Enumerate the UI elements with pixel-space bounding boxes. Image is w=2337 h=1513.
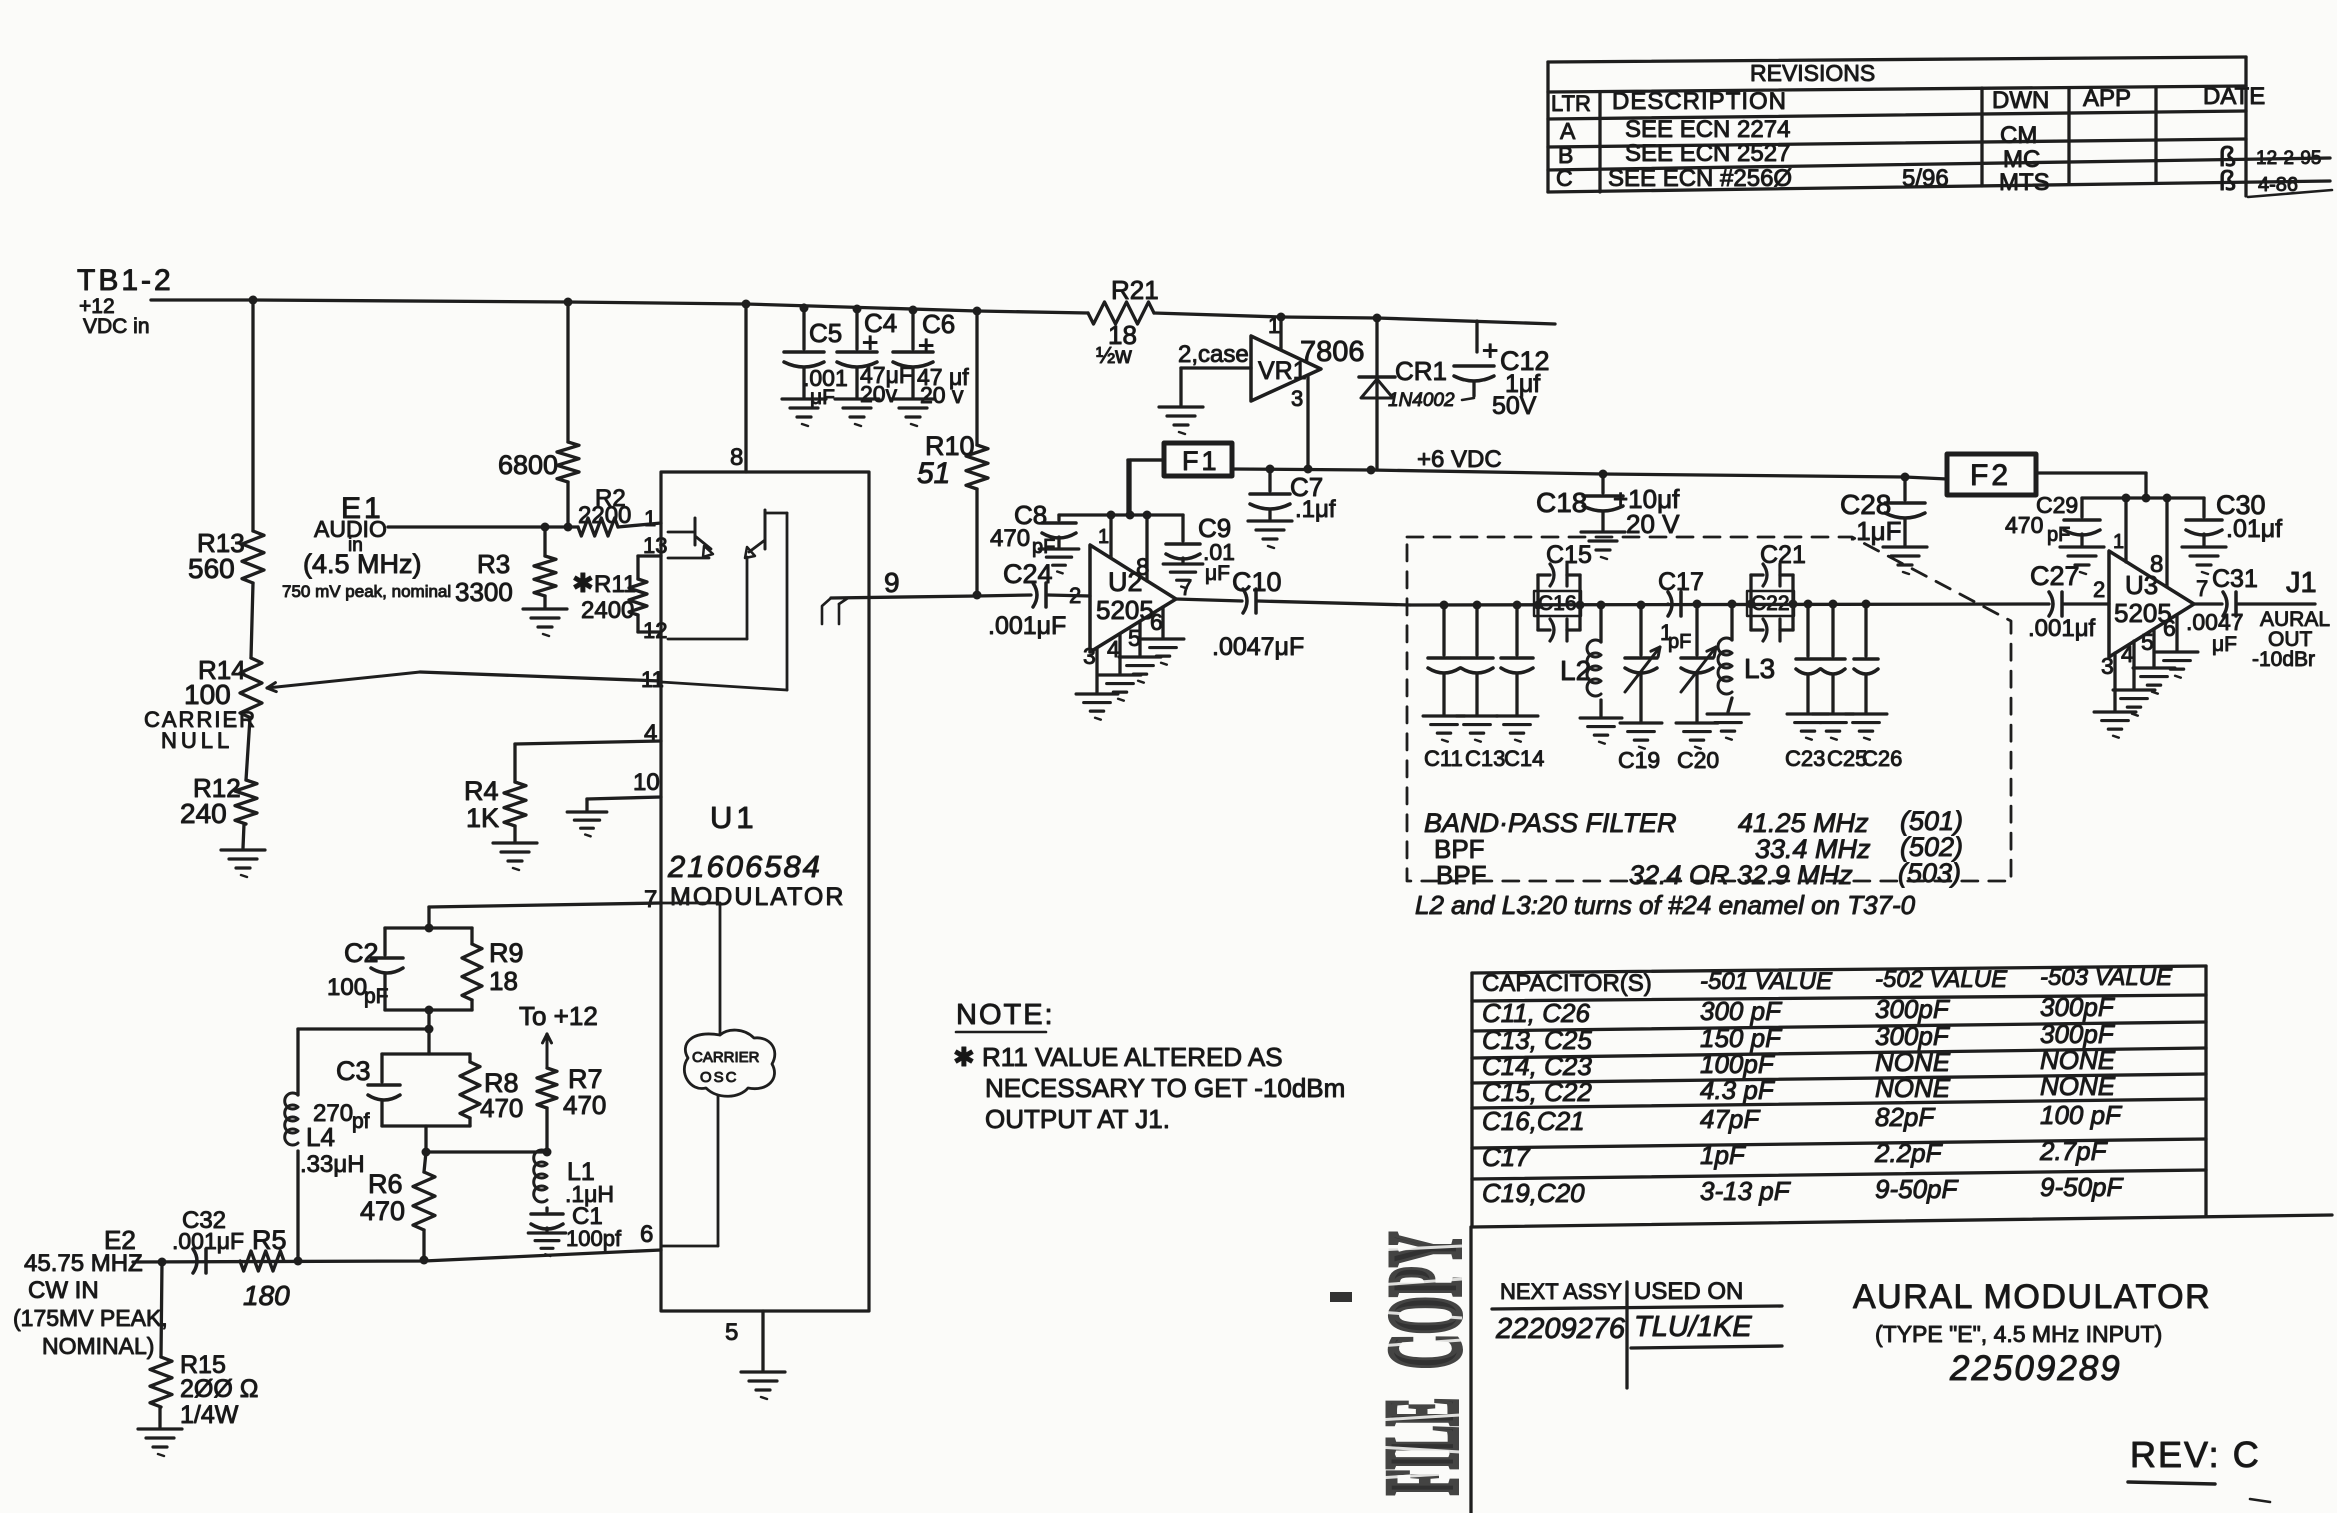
svg-text:560: 560 [188, 553, 235, 584]
svg-text:A: A [1560, 118, 1576, 144]
svg-text:F1: F1 [1182, 446, 1220, 476]
svg-text:12: 12 [643, 618, 667, 643]
svg-text:20 v: 20 v [920, 382, 964, 408]
svg-text:+: + [918, 330, 934, 361]
svg-text:COPY: COPY [1368, 1232, 1482, 1369]
svg-text:C26: C26 [1862, 746, 1902, 771]
svg-text:U1: U1 [710, 800, 758, 835]
svg-text:32.4 OR 32.9 MHz: 32.4 OR 32.9 MHz [1629, 860, 1853, 890]
svg-text:L4: L4 [306, 1122, 335, 1152]
svg-text:(175MV PEAK,: (175MV PEAK, [13, 1305, 168, 1331]
svg-text:NEXT ASSY: NEXT ASSY [1500, 1279, 1622, 1304]
svg-text:R9: R9 [489, 938, 524, 968]
svg-text:R4: R4 [464, 776, 499, 806]
svg-text:470: 470 [2005, 512, 2043, 538]
svg-text:½w: ½w [1096, 342, 1132, 368]
svg-text:C18: C18 [1536, 487, 1587, 518]
svg-text:(4.5 MHz): (4.5 MHz) [303, 549, 422, 579]
svg-text:4: 4 [2121, 641, 2134, 667]
svg-text:.1μf: .1μf [1295, 496, 1336, 523]
svg-text:1N4002: 1N4002 [1388, 390, 1455, 411]
svg-text:2: 2 [2093, 577, 2105, 602]
svg-text:1/4W: 1/4W [180, 1401, 239, 1429]
svg-text:180: 180 [243, 1280, 290, 1311]
svg-text:L2: L2 [1560, 655, 1591, 686]
svg-text:USED ON: USED ON [1634, 1278, 1743, 1305]
svg-text:9-50pF: 9-50pF [2040, 1172, 2124, 1202]
svg-text:LTR: LTR [1551, 91, 1591, 116]
svg-text:-502 VALUE: -502 VALUE [1875, 966, 2008, 993]
svg-text:-501 VALUE: -501 VALUE [1700, 968, 1833, 995]
svg-text:L2 and L3:20 turns of #24 enam: L2 and L3:20 turns of #24 enamel on T37-… [1415, 890, 1916, 920]
svg-text:470: 470 [990, 525, 1030, 552]
svg-text:C11, C26: C11, C26 [1482, 998, 1590, 1028]
svg-text:5: 5 [2141, 629, 2154, 655]
svg-text:18: 18 [489, 966, 518, 996]
svg-text:47pF: 47pF [1700, 1104, 1761, 1134]
svg-text:SEE ECN #256Ø: SEE ECN #256Ø [1608, 165, 1792, 192]
svg-text:NONE: NONE [2040, 1071, 2116, 1101]
svg-text:2,case: 2,case [1178, 341, 1249, 368]
svg-text:REVISIONS: REVISIONS [1750, 60, 1875, 86]
svg-text:μF: μF [1205, 562, 1230, 585]
svg-text:470: 470 [480, 1093, 523, 1123]
svg-text:100 pF: 100 pF [2040, 1100, 2123, 1130]
svg-text:C5: C5 [809, 318, 842, 348]
svg-text:CM: CM [2000, 122, 2037, 149]
svg-text:100pf: 100pf [566, 1226, 622, 1251]
svg-text:MODULATOR: MODULATOR [670, 883, 845, 911]
svg-text:✱ R11 VALUE ALTERED AS: ✱ R11 VALUE ALTERED AS [953, 1042, 1283, 1072]
svg-text:To +12: To +12 [519, 1001, 598, 1031]
svg-text:240: 240 [180, 798, 227, 829]
svg-text:22209276: 22209276 [1495, 1313, 1626, 1345]
svg-text:DWN: DWN [1992, 87, 2049, 114]
svg-text:pF: pF [1668, 631, 1691, 653]
svg-text:CW IN: CW IN [28, 1277, 99, 1304]
svg-text:3-13 pF: 3-13 pF [1700, 1176, 1792, 1206]
svg-text:1: 1 [1268, 313, 1280, 338]
svg-text:20v: 20v [860, 381, 898, 407]
svg-text:BPF: BPF [1436, 860, 1487, 890]
svg-text:300pF: 300pF [2040, 992, 2116, 1022]
svg-text:10: 10 [633, 769, 660, 796]
svg-text:CARRIER: CARRIER [692, 1049, 760, 1066]
svg-text:pF: pF [2047, 524, 2070, 546]
svg-text:OUTPUT AT J1.: OUTPUT AT J1. [985, 1104, 1170, 1134]
svg-text:J1: J1 [2286, 567, 2317, 599]
svg-text:✱: ✱ [572, 568, 594, 598]
svg-text:.001μF: .001μF [172, 1228, 244, 1254]
svg-text:470: 470 [360, 1196, 405, 1226]
svg-text:22509289: 22509289 [1949, 1349, 2122, 1388]
svg-text:pF: pF [1032, 536, 1055, 558]
svg-text:-10dBr: -10dBr [2252, 648, 2315, 671]
svg-text:C24: C24 [1003, 559, 1053, 589]
svg-text:100: 100 [184, 679, 231, 710]
svg-text:C16,C21: C16,C21 [1482, 1106, 1585, 1136]
svg-text:R5: R5 [252, 1225, 287, 1255]
svg-text:750 mV peak, nominal: 750 mV peak, nominal [282, 582, 451, 601]
svg-text:13: 13 [643, 533, 667, 558]
svg-text:45.75 MHZ: 45.75 MHZ [24, 1250, 143, 1277]
svg-text:5205: 5205 [1096, 595, 1154, 625]
svg-text:.0047: .0047 [2186, 609, 2244, 635]
svg-text:NECESSARY TO GET -10dBm: NECESSARY TO GET -10dBm [985, 1073, 1345, 1103]
svg-text:6: 6 [640, 1221, 653, 1248]
svg-text:3: 3 [1083, 643, 1096, 669]
svg-text:2.7pF: 2.7pF [2039, 1136, 2109, 1166]
svg-text:82pF: 82pF [1875, 1102, 1936, 1132]
svg-text:5/96: 5/96 [1902, 165, 1949, 192]
svg-text:1pF: 1pF [1700, 1140, 1747, 1170]
svg-text:6800: 6800 [498, 450, 558, 480]
svg-text:-503 VALUE: -503 VALUE [2040, 964, 2173, 991]
svg-text:MTS: MTS [1999, 169, 2050, 196]
svg-text:C2: C2 [344, 938, 379, 968]
svg-text:C20: C20 [1677, 747, 1719, 773]
svg-text:3: 3 [2101, 653, 2114, 679]
svg-text:1: 1 [644, 506, 656, 531]
svg-text:.0047μF: .0047μF [1212, 633, 1304, 661]
svg-text:7806: 7806 [1300, 336, 1365, 368]
svg-text:pf: pf [352, 1110, 370, 1133]
svg-text:5: 5 [725, 1319, 738, 1346]
svg-text:50V: 50V [1492, 392, 1537, 420]
svg-text:NULL: NULL [161, 728, 233, 753]
svg-text:C3: C3 [336, 1056, 371, 1086]
svg-text:SEE ECN 2527: SEE ECN 2527 [1625, 140, 1790, 167]
svg-text:2200: 2200 [578, 502, 631, 529]
svg-text:C19: C19 [1618, 747, 1660, 773]
svg-text:APP: APP [2083, 85, 2131, 112]
svg-text:C: C [1556, 165, 1573, 191]
svg-text:C16: C16 [1538, 592, 1577, 615]
svg-text:20 V: 20 V [1626, 509, 1680, 539]
svg-text:C14: C14 [1504, 746, 1544, 771]
svg-text:TB1-2: TB1-2 [77, 264, 174, 297]
svg-text:9-50pF: 9-50pF [1875, 1174, 1959, 1204]
svg-text:C21: C21 [1760, 541, 1806, 569]
svg-text:7: 7 [644, 886, 657, 913]
svg-text:OSC: OSC [700, 1069, 739, 1086]
svg-text:2.2pF: 2.2pF [1874, 1138, 1944, 1168]
svg-text:NONE: NONE [1875, 1073, 1951, 1103]
svg-text:VDC in: VDC in [83, 315, 150, 338]
svg-text:470: 470 [563, 1090, 606, 1120]
svg-text:9: 9 [884, 567, 900, 598]
svg-text:NOMINAL): NOMINAL) [42, 1333, 154, 1359]
svg-text:.33μH: .33μH [300, 1151, 365, 1178]
svg-text:1K: 1K [466, 803, 499, 833]
svg-text:(TYPE "E", 4.5 MHz INPUT: (TYPE "E", 4.5 MHz INPUT) [1875, 1321, 2162, 1347]
svg-text:C13: C13 [1465, 746, 1505, 771]
svg-text:.001μf: .001μf [2028, 615, 2096, 642]
svg-text:1: 1 [1098, 526, 1109, 548]
svg-text:C22: C22 [1751, 592, 1790, 615]
svg-text:2400: 2400 [581, 597, 634, 624]
svg-text:R11: R11 [594, 571, 636, 598]
svg-text:C31: C31 [2212, 565, 2258, 593]
svg-text:3: 3 [1291, 386, 1303, 411]
svg-text:3300: 3300 [455, 577, 513, 607]
svg-text:μF: μF [2212, 633, 2237, 656]
svg-text:C11: C11 [1424, 746, 1463, 771]
svg-text:pF: pF [364, 985, 389, 1008]
svg-text:5: 5 [1128, 625, 1141, 651]
svg-text:4.3 pF: 4.3 pF [1700, 1075, 1776, 1105]
svg-text:CR1: CR1 [1395, 356, 1447, 386]
svg-text:2ØØ Ω: 2ØØ Ω [180, 1375, 258, 1403]
svg-text:21606584: 21606584 [667, 849, 822, 884]
svg-text:F2: F2 [1970, 459, 2011, 492]
svg-text:4-86: 4-86 [2258, 174, 2298, 196]
svg-text:+: + [862, 327, 878, 358]
svg-text:8: 8 [1136, 554, 1149, 581]
svg-text:R21: R21 [1111, 275, 1159, 305]
svg-text:100: 100 [327, 974, 367, 1001]
svg-text:12-2-95: 12-2-95 [2256, 148, 2322, 169]
svg-text:DESCRIPTION: DESCRIPTION [1612, 88, 1787, 115]
svg-text:8: 8 [2150, 551, 2163, 578]
svg-text:11: 11 [641, 667, 664, 692]
svg-text:C19,C20: C19,C20 [1482, 1178, 1585, 1208]
svg-text:REV: C: REV: C [2130, 1434, 2261, 1475]
svg-text:300pF: 300pF [1875, 994, 1951, 1024]
svg-text:.001μF: .001μF [988, 612, 1066, 640]
svg-text:C23: C23 [1785, 746, 1825, 771]
svg-text:ß: ß [2219, 165, 2236, 196]
svg-text:C15, C22: C15, C22 [1482, 1077, 1592, 1107]
svg-text:R6: R6 [368, 1169, 403, 1199]
svg-text:L3: L3 [1744, 653, 1775, 684]
svg-text:C15: C15 [1546, 541, 1592, 569]
svg-text:7: 7 [2196, 576, 2208, 601]
svg-text:CAPACITOR(S): CAPACITOR(S) [1482, 970, 1652, 997]
svg-text:8: 8 [730, 444, 743, 471]
svg-text:μF: μF [810, 386, 835, 409]
svg-text:6: 6 [2163, 615, 2176, 641]
svg-text:1: 1 [2113, 531, 2124, 553]
svg-text:NOTE:: NOTE: [956, 999, 1055, 1031]
svg-text:.1μF: .1μF [1849, 516, 1902, 546]
svg-text:51: 51 [917, 457, 950, 490]
svg-text:C27: C27 [2030, 561, 2080, 591]
svg-text:6: 6 [1150, 609, 1163, 635]
svg-text:C17: C17 [1482, 1142, 1531, 1172]
svg-text:+6 VDC: +6 VDC [1417, 446, 1502, 473]
svg-text:TLU/1KE: TLU/1KE [1634, 1311, 1752, 1343]
svg-text:(503): (503) [1898, 858, 1961, 888]
svg-text:SEE ECN 2274: SEE ECN 2274 [1625, 116, 1790, 143]
svg-text:.01μf: .01μf [2226, 515, 2282, 543]
svg-text:DATE: DATE [2203, 83, 2265, 110]
svg-text:R3: R3 [477, 549, 510, 579]
svg-text:300 pF: 300 pF [1700, 996, 1783, 1026]
svg-text:C10: C10 [1232, 567, 1282, 597]
svg-text:+: + [1482, 335, 1498, 366]
svg-text:C17: C17 [1658, 568, 1704, 596]
svg-text:AURAL MODULATOR: AURAL MODULATOR [1853, 1278, 2211, 1316]
